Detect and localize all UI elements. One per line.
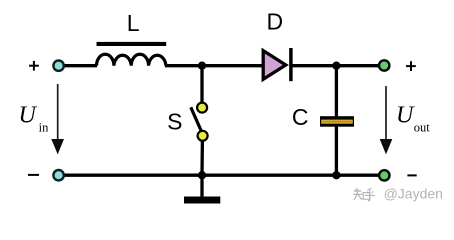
switch S lower contact bbox=[198, 131, 208, 141]
inductor L coil bbox=[97, 54, 166, 65]
input + terminal (cyan) bbox=[53, 60, 63, 70]
svg-text:@Jayden: @Jayden bbox=[384, 186, 443, 202]
wire from node C down to ground bbox=[200, 175, 203, 197]
capacitor C dielectric gold band bbox=[321, 120, 353, 124]
diode D cathode bar bbox=[289, 48, 293, 81]
input plus sign bbox=[29, 61, 39, 71]
node C junction dot (switch/ground on bottom rail) bbox=[198, 171, 206, 179]
wire top from inductor to diode anode through node A bbox=[165, 64, 263, 67]
node D junction dot (capacitor on bottom rail) bbox=[332, 171, 340, 179]
svg-text:in: in bbox=[39, 120, 49, 134]
capacitor C plates bbox=[320, 116, 354, 127]
wire from node A down to switch upper contact bbox=[200, 66, 203, 103]
svg-text:L: L bbox=[127, 10, 140, 36]
svg-text:S: S bbox=[167, 108, 182, 134]
watermark hanzi hu (乎) bbox=[365, 188, 375, 200]
wire from capacitor bottom plate down to node D bbox=[335, 125, 338, 175]
svg-text:U: U bbox=[19, 103, 38, 129]
wire top from input + terminal to inductor bbox=[63, 64, 97, 67]
node A junction dot (inductor/diode/switch) bbox=[198, 62, 206, 70]
capacitor C dielectric center line bbox=[321, 121, 353, 123]
svg-text:C: C bbox=[292, 104, 309, 130]
svg-text:out: out bbox=[414, 120, 431, 134]
inductor L core bar bbox=[97, 42, 167, 46]
wire bottom rail from input - terminal to output - terminal bbox=[63, 174, 380, 177]
node B junction dot (diode/capacitor/output) bbox=[332, 62, 340, 70]
output plus sign bbox=[406, 61, 416, 71]
U_out arrowhead bbox=[380, 139, 393, 154]
diode D body triangle bbox=[263, 51, 286, 80]
input - terminal (cyan) bbox=[53, 170, 63, 180]
output + terminal (green) bbox=[379, 60, 389, 70]
output minus sign bbox=[407, 174, 416, 176]
svg-text:U: U bbox=[396, 103, 415, 129]
U_out arrow shaft bbox=[385, 86, 387, 141]
switch S upper contact bbox=[197, 103, 207, 113]
output - terminal (green) bbox=[379, 170, 389, 180]
U_in arrowhead bbox=[51, 139, 64, 154]
wire top from diode cathode to output + terminal through node B bbox=[291, 64, 380, 67]
switch S blade (open) bbox=[191, 107, 202, 131]
input minus sign bbox=[28, 174, 39, 176]
wire from switch lower contact down to bottom rail node C bbox=[200, 140, 204, 175]
U_in arrow shaft bbox=[57, 84, 59, 141]
svg-text:D: D bbox=[266, 8, 283, 34]
wire from node B down to capacitor top plate bbox=[335, 66, 338, 118]
ground symbol bbox=[184, 197, 220, 204]
watermark hanzi zhi (知) bbox=[353, 189, 370, 201]
